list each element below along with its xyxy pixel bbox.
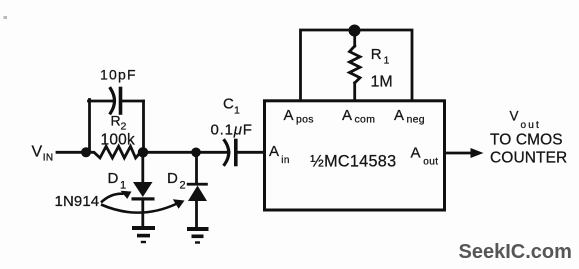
- wire top rail from A_pos to A_neg: [301, 30, 413, 100]
- wire diode D1 anode lead: [141, 152, 144, 183]
- 1N914 callout arc to D2: [101, 204, 176, 213]
- resistor R1 zigzag: [350, 46, 361, 83]
- svg-text:A: A: [284, 107, 294, 124]
- svg-text:A: A: [342, 107, 352, 124]
- op-amp U1 ½MC14583 box: [265, 101, 445, 210]
- svg-text:D: D: [108, 170, 119, 187]
- svg-text:1: 1: [384, 55, 390, 67]
- svg-text:pos: pos: [296, 114, 314, 126]
- svg-text:1: 1: [120, 180, 126, 192]
- wire D2 node to C1: [196, 151, 229, 154]
- svg-text:R: R: [111, 113, 121, 129]
- svg-text:IN: IN: [43, 152, 54, 163]
- svg-text:A: A: [411, 145, 421, 162]
- pin A_in: [269, 143, 290, 166]
- ground symbol below D2: [187, 227, 209, 244]
- svg-text:TO CMOS: TO CMOS: [490, 132, 563, 149]
- wire R2 left branch vertical (10pF branch left leg): [88, 100, 91, 153]
- diode D2 cathode bar: [187, 183, 208, 186]
- svg-text:R: R: [371, 46, 382, 63]
- capacitor C1 straight plate: [234, 141, 238, 165]
- capacitor 10pF curved plate: [111, 89, 115, 114]
- svg-text:C: C: [223, 96, 234, 113]
- svg-text:out: out: [423, 157, 438, 168]
- svg-text:½MC14583: ½MC14583: [310, 153, 396, 171]
- 1N914 callout arrowhead to D1: [121, 191, 132, 199]
- wire 10pF top branch right horizontal: [122, 100, 144, 103]
- label V_out: [510, 108, 542, 131]
- svg-text:1: 1: [234, 105, 240, 117]
- pin A_com: [342, 107, 375, 126]
- junction node at V_IN / R2 / 10pF branch: [81, 147, 91, 157]
- svg-text:1M: 1M: [371, 74, 393, 91]
- svg-text:in: in: [281, 155, 289, 166]
- svg-text:0.1μF: 0.1μF: [211, 122, 253, 139]
- resistor R2 zigzag: [86, 146, 143, 158]
- 1N914 callout arc to D1: [101, 194, 124, 203]
- pin A_pos: [284, 107, 314, 126]
- svg-text:100k: 100k: [101, 131, 135, 148]
- 1N914 callout arrowhead to D2: [173, 199, 185, 209]
- label R2: [111, 113, 127, 133]
- svg-text:com: com: [355, 114, 376, 126]
- svg-text:2: 2: [180, 180, 186, 192]
- junction node at R1 top rail: [349, 25, 361, 37]
- svg-text:V: V: [510, 108, 519, 123]
- diode D2 triangle (pointing up): [188, 186, 207, 202]
- svg-text:10pF: 10pF: [100, 67, 137, 83]
- wire main node to D2 node: [143, 151, 196, 154]
- pin A_neg: [394, 107, 425, 126]
- node V_IN input wire: [57, 151, 87, 154]
- diode D1 triangle (pointing down): [133, 182, 153, 197]
- label D1: [108, 170, 127, 192]
- svg-text:neg: neg: [407, 114, 425, 126]
- label C1: [223, 96, 240, 117]
- svg-text:A: A: [394, 107, 404, 124]
- wire diode D2 anode lead to ground: [195, 201, 198, 228]
- wire diode D1 cathode lead to ground: [141, 199, 144, 227]
- svg-text:1N914: 1N914: [55, 193, 100, 210]
- ground symbol below D1: [132, 226, 155, 243]
- junction node at R2 / D1 / 10pF branch: [138, 147, 148, 157]
- label V_IN: [32, 144, 54, 164]
- svg-text:SeekIC.com: SeekIC.com: [459, 241, 572, 263]
- svg-text:D: D: [167, 170, 178, 187]
- wire A_out output lead: [446, 152, 472, 155]
- junction node at D2: [191, 148, 201, 158]
- label R1: [371, 46, 390, 67]
- svg-text:V: V: [32, 144, 43, 161]
- diode D1 cathode bar: [132, 197, 155, 200]
- capacitor C1 curved plate: [225, 141, 229, 165]
- resistor R1 bottom lead to A_com pin: [353, 83, 356, 100]
- pin A_out: [411, 145, 439, 168]
- capacitor 10pF straight plate: [119, 89, 123, 114]
- scan speck artifact: [4, 16, 8, 19]
- wire C1 to A_in pin: [238, 151, 264, 154]
- label D2: [167, 170, 186, 192]
- svg-text:A: A: [269, 143, 279, 160]
- svg-text:out: out: [521, 120, 542, 131]
- output arrowhead to CMOS counter: [471, 148, 484, 158]
- wire 10pF branch right leg down to main node: [142, 101, 145, 152]
- svg-text:COUNTER: COUNTER: [490, 149, 567, 166]
- wire 10pF top branch left horizontal: [89, 100, 114, 103]
- resistor R1 top lead: [353, 30, 356, 46]
- wire diode D2 cathode lead: [195, 152, 198, 183]
